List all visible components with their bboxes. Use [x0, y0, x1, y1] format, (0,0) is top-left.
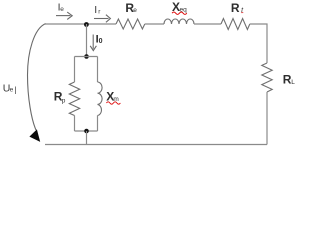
svg-text:p: p	[62, 97, 66, 104]
svg-text:e: e	[10, 87, 14, 94]
current arrow I0	[90, 35, 96, 51]
wire node to parallel block	[86, 24, 88, 57]
label Xm	[106, 90, 119, 104]
wire parallel block to bottom wire	[86, 131, 88, 145]
svg-text:e: e	[133, 7, 137, 14]
svg-text:e: e	[60, 6, 64, 13]
arrowhead of Ue arrow	[29, 129, 40, 142]
node parallel bottom	[84, 129, 89, 134]
right branch lower wire	[97, 116, 99, 132]
resistor Re	[116, 19, 145, 29]
bottom wire	[45, 144, 267, 146]
node parallel top	[84, 54, 89, 59]
voltage curved arrow Ue	[28, 24, 46, 130]
spellcheck squiggle under Xm	[106, 102, 120, 104]
resistor Rt	[221, 19, 250, 30]
parallel block bottom rail	[75, 130, 98, 132]
red tick under t	[241, 11, 243, 14]
label RL	[283, 72, 295, 86]
svg-text:t: t	[241, 7, 244, 14]
label Rt	[231, 1, 244, 15]
wire between Re and Xeq	[145, 23, 164, 25]
inductor Xm	[98, 82, 103, 116]
label Re	[125, 1, 137, 15]
current arrow Ir	[94, 15, 110, 23]
wire RL down to bottom	[266, 92, 268, 145]
label Rp	[54, 90, 66, 105]
svg-text:I: I	[94, 4, 97, 16]
inductor Xeq	[164, 19, 194, 24]
wire between Xeq and Rt	[194, 23, 221, 25]
parallel block top rail	[75, 56, 98, 58]
node junction top	[84, 22, 89, 27]
wire Rt to right corner and down	[250, 24, 267, 63]
left branch upper wire	[74, 57, 76, 83]
left branch lower wire	[74, 116, 76, 132]
svg-text:0: 0	[99, 38, 103, 45]
resistor RL	[262, 63, 272, 92]
voltage label Ue	[3, 83, 17, 95]
svg-text:|: |	[14, 85, 16, 95]
resistor Rp	[69, 82, 79, 116]
current label Ir	[94, 4, 101, 16]
svg-text:L: L	[291, 79, 295, 86]
current arrow Ie	[56, 12, 72, 19]
spellcheck squiggle under Xeq	[172, 12, 187, 14]
current label Ie	[58, 2, 65, 14]
label Xeq	[172, 0, 187, 14]
svg-text:r: r	[98, 9, 101, 16]
right branch upper wire	[97, 57, 99, 83]
current label I0	[96, 34, 103, 46]
wire top from source to node	[45, 23, 116, 25]
svg-text:R: R	[231, 1, 240, 15]
